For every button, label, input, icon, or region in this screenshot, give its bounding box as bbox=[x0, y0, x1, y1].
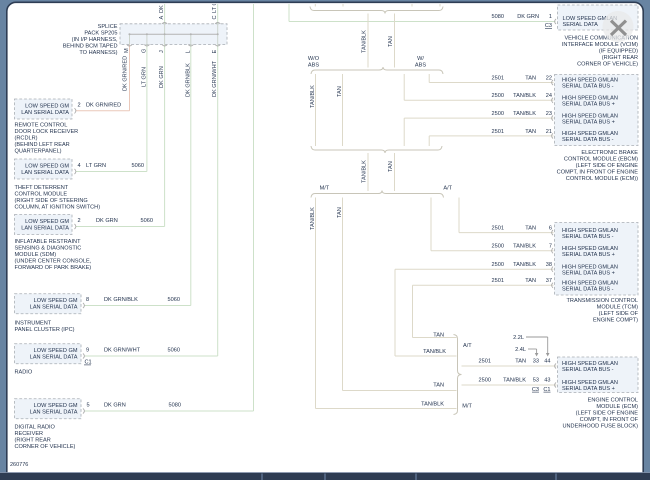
svg-text:2.2L: 2.2L bbox=[513, 335, 524, 341]
svg-text:TAN: TAN bbox=[433, 333, 444, 339]
svg-text:2500: 2500 bbox=[492, 262, 504, 268]
svg-text:260776: 260776 bbox=[10, 462, 28, 468]
svg-text:DK GRN: DK GRN bbox=[96, 218, 118, 224]
svg-text:(LEFT SIDE OF ENGINE: (LEFT SIDE OF ENGINE bbox=[576, 163, 639, 169]
svg-text:SERIAL DATA BUS +: SERIAL DATA BUS + bbox=[562, 119, 615, 125]
svg-text:TAN: TAN bbox=[525, 278, 536, 284]
svg-text:TAN: TAN bbox=[525, 75, 536, 81]
svg-text:CONTROL MODULE: CONTROL MODULE bbox=[15, 192, 68, 198]
svg-text:TAN: TAN bbox=[433, 383, 444, 389]
svg-text:43: 43 bbox=[544, 377, 550, 383]
svg-text:PANEL CLUSTER (IPC): PANEL CLUSTER (IPC) bbox=[15, 327, 75, 333]
svg-text:(RIGHT REAR: (RIGHT REAR bbox=[15, 438, 51, 444]
svg-text:SERIAL DATA BUS +: SERIAL DATA BUS + bbox=[562, 386, 615, 392]
svg-text:LOW SPEED GM: LOW SPEED GM bbox=[25, 219, 69, 225]
svg-text:37: 37 bbox=[546, 278, 552, 284]
svg-text:SERIAL DATA BUS -: SERIAL DATA BUS - bbox=[562, 234, 614, 240]
svg-text:ENGINE COMPT): ENGINE COMPT) bbox=[593, 318, 638, 324]
svg-text:M/T: M/T bbox=[320, 185, 330, 191]
svg-text:C: C bbox=[212, 15, 218, 19]
svg-text:TAN: TAN bbox=[525, 225, 536, 231]
svg-text:TAN/BLK: TAN/BLK bbox=[362, 30, 368, 53]
svg-text:TAN/BLK: TAN/BLK bbox=[513, 111, 536, 117]
svg-text:COMPT, IN FRONT OF ENGINE: COMPT, IN FRONT OF ENGINE bbox=[557, 170, 639, 176]
svg-text:QUARTERPANEL): QUARTERPANEL) bbox=[15, 149, 62, 155]
svg-text:TAN: TAN bbox=[388, 161, 394, 172]
svg-text:TAN/BLK: TAN/BLK bbox=[513, 243, 536, 249]
svg-text:9: 9 bbox=[86, 348, 89, 354]
svg-text:DK GRN/BLK: DK GRN/BLK bbox=[104, 297, 138, 303]
svg-text:5060: 5060 bbox=[168, 297, 180, 303]
svg-text:A: A bbox=[159, 16, 165, 20]
svg-text:LAN SERIAL DATA: LAN SERIAL DATA bbox=[21, 170, 69, 176]
svg-text:REMOTE CONTROL: REMOTE CONTROL bbox=[15, 123, 68, 129]
svg-text:2501: 2501 bbox=[479, 359, 491, 365]
svg-text:DK GRN: DK GRN bbox=[159, 66, 165, 88]
svg-text:W/: W/ bbox=[417, 56, 424, 62]
svg-text:LOW SPEED GM: LOW SPEED GM bbox=[34, 348, 78, 354]
svg-text:A/T: A/T bbox=[463, 343, 472, 349]
svg-text:5060: 5060 bbox=[141, 218, 153, 224]
svg-text:TAN/BLK: TAN/BLK bbox=[513, 93, 536, 99]
svg-text:5060: 5060 bbox=[168, 348, 180, 354]
svg-text:INFLATABLE RESTRAINT: INFLATABLE RESTRAINT bbox=[15, 239, 82, 245]
svg-text:SERIAL DATA: SERIAL DATA bbox=[563, 22, 599, 28]
svg-text:4: 4 bbox=[78, 163, 81, 169]
svg-text:M/T: M/T bbox=[462, 403, 472, 409]
svg-text:SERIAL DATA BUS -: SERIAL DATA BUS - bbox=[562, 367, 614, 373]
svg-text:2.4L: 2.4L bbox=[515, 347, 526, 353]
svg-text:LAN SERIAL DATA: LAN SERIAL DATA bbox=[30, 410, 78, 416]
svg-text:TAN: TAN bbox=[515, 359, 526, 365]
svg-text:LAN SERIAL DATA: LAN SERIAL DATA bbox=[21, 225, 69, 231]
svg-text:1: 1 bbox=[549, 14, 552, 20]
svg-text:DK GRN/RED: DK GRN/RED bbox=[86, 103, 121, 109]
svg-text:CORNER OF VEHICLE): CORNER OF VEHICLE) bbox=[15, 444, 76, 450]
svg-text:FORWARD OF PARK BRAKE): FORWARD OF PARK BRAKE) bbox=[15, 265, 92, 271]
svg-text:33: 33 bbox=[533, 359, 539, 365]
svg-text:2500: 2500 bbox=[479, 377, 491, 383]
svg-text:BEHIND BCM TAPED: BEHIND BCM TAPED bbox=[63, 44, 118, 50]
svg-text:5080: 5080 bbox=[492, 14, 504, 20]
svg-text:TAN: TAN bbox=[337, 86, 343, 97]
svg-text:(RIGHT SIDE OF STEERING: (RIGHT SIDE OF STEERING bbox=[15, 198, 88, 204]
svg-text:CONTROL MODULE (EBCM): CONTROL MODULE (EBCM) bbox=[564, 157, 638, 163]
svg-text:2: 2 bbox=[78, 103, 81, 109]
svg-text:LOW SPEED GM: LOW SPEED GM bbox=[25, 163, 69, 169]
svg-text:ENGINE CONTROL: ENGINE CONTROL bbox=[588, 398, 638, 404]
svg-text:SERIAL DATA BUS +: SERIAL DATA BUS + bbox=[562, 252, 615, 258]
svg-text:G: G bbox=[141, 49, 147, 53]
svg-text:SERIAL DATA BUS -: SERIAL DATA BUS - bbox=[562, 137, 614, 143]
svg-text:ABS: ABS bbox=[415, 63, 426, 69]
svg-text:8: 8 bbox=[86, 297, 89, 303]
svg-text:44: 44 bbox=[544, 359, 550, 365]
svg-text:DK GRN/RED: DK GRN/RED bbox=[123, 56, 129, 91]
svg-text:LOW SPEED GM: LOW SPEED GM bbox=[34, 298, 78, 304]
svg-text:DK GRN/WHT: DK GRN/WHT bbox=[212, 60, 218, 97]
svg-text:TAN/BLK: TAN/BLK bbox=[513, 262, 536, 268]
svg-text:RECEIVER: RECEIVER bbox=[15, 431, 44, 437]
svg-text:SERIAL DATA BUS -: SERIAL DATA BUS - bbox=[562, 84, 614, 90]
svg-text:INSTRUMENT: INSTRUMENT bbox=[15, 321, 52, 327]
svg-text:(IF EQUIPPED): (IF EQUIPPED) bbox=[599, 49, 638, 55]
svg-text:(LEFT SIDE OF ENGINE: (LEFT SIDE OF ENGINE bbox=[576, 411, 639, 417]
svg-text:LT GRN: LT GRN bbox=[141, 67, 147, 87]
svg-text:COLUMN, AT IGNITION SWITCH): COLUMN, AT IGNITION SWITCH) bbox=[15, 205, 101, 211]
svg-text:TAN/BLK: TAN/BLK bbox=[421, 401, 444, 407]
svg-text:5: 5 bbox=[87, 403, 90, 409]
svg-text:W/O: W/O bbox=[308, 56, 320, 62]
svg-text:L: L bbox=[185, 50, 191, 53]
svg-text:2501: 2501 bbox=[492, 225, 504, 231]
svg-text:E: E bbox=[212, 50, 218, 54]
svg-text:53: 53 bbox=[533, 377, 539, 383]
svg-text:DK GRN: DK GRN bbox=[517, 14, 539, 20]
svg-text:(UNDER CENTER CONSOLE,: (UNDER CENTER CONSOLE, bbox=[15, 259, 92, 265]
svg-text:TAN/BLK: TAN/BLK bbox=[362, 160, 368, 183]
svg-text:38: 38 bbox=[546, 262, 552, 268]
svg-text:5080: 5080 bbox=[169, 403, 181, 409]
svg-text:RADIO: RADIO bbox=[15, 370, 33, 376]
svg-text:CONTROL MODULE (ECM)): CONTROL MODULE (ECM)) bbox=[566, 176, 638, 182]
svg-text:ABS: ABS bbox=[308, 63, 319, 69]
svg-text:INTERFACE MODULE (VCIM): INTERFACE MODULE (VCIM) bbox=[562, 42, 638, 48]
svg-text:22: 22 bbox=[546, 75, 552, 81]
svg-text:M: M bbox=[124, 48, 130, 53]
svg-text:21: 21 bbox=[546, 129, 552, 135]
svg-text:2500: 2500 bbox=[492, 111, 504, 117]
svg-text:2501: 2501 bbox=[492, 129, 504, 135]
svg-text:DK GRN/WHT: DK GRN/WHT bbox=[104, 348, 141, 354]
svg-text:SPLICE: SPLICE bbox=[98, 24, 118, 30]
svg-text:CORNER OF VEHICLE): CORNER OF VEHICLE) bbox=[577, 62, 638, 68]
svg-text:PACK SP205: PACK SP205 bbox=[84, 31, 117, 37]
svg-text:(IN I/P HARNESS,: (IN I/P HARNESS, bbox=[72, 37, 118, 43]
svg-text:24: 24 bbox=[546, 93, 552, 99]
svg-text:LOW SPEED GM: LOW SPEED GM bbox=[25, 103, 69, 109]
svg-text:DK GRN/BLK: DK GRN/BLK bbox=[185, 63, 191, 97]
svg-text:THEFT DETERRENT: THEFT DETERRENT bbox=[15, 185, 69, 191]
svg-text:SERIAL DATA BUS +: SERIAL DATA BUS + bbox=[562, 270, 615, 276]
svg-text:(BEHIND LEFT REAR: (BEHIND LEFT REAR bbox=[15, 142, 70, 148]
svg-text:TRANSMISSION CONTROL: TRANSMISSION CONTROL bbox=[567, 298, 638, 304]
svg-text:TAN/BLK: TAN/BLK bbox=[310, 85, 316, 108]
svg-text:(RCDLR): (RCDLR) bbox=[15, 136, 38, 142]
svg-text:SERIAL DATA BUS +: SERIAL DATA BUS + bbox=[562, 102, 615, 108]
svg-text:SENSING & DIAGNOSTIC: SENSING & DIAGNOSTIC bbox=[15, 246, 82, 252]
svg-text:ELECTRONIC BRAKE: ELECTRONIC BRAKE bbox=[581, 150, 638, 156]
svg-text:TAN/BLK: TAN/BLK bbox=[310, 207, 316, 230]
svg-text:DK GRN: DK GRN bbox=[104, 403, 126, 409]
svg-text:A/T: A/T bbox=[443, 185, 452, 191]
svg-text:LT GRN: LT GRN bbox=[86, 163, 106, 169]
svg-text:MODULE (SDM): MODULE (SDM) bbox=[15, 252, 57, 258]
svg-text:J: J bbox=[159, 50, 165, 53]
svg-text:LAN SERIAL DATA: LAN SERIAL DATA bbox=[30, 305, 78, 311]
svg-text:2501: 2501 bbox=[492, 278, 504, 284]
svg-text:MODULE (ECM): MODULE (ECM) bbox=[596, 404, 638, 410]
svg-text:2500: 2500 bbox=[492, 243, 504, 249]
svg-text:LAN SERIAL DATA: LAN SERIAL DATA bbox=[21, 110, 69, 116]
svg-text:(RIGHT REAR: (RIGHT REAR bbox=[602, 55, 638, 61]
svg-text:TO HARNESS): TO HARNESS) bbox=[79, 50, 117, 56]
svg-text:TAN/BLK: TAN/BLK bbox=[503, 377, 526, 383]
svg-text:2: 2 bbox=[78, 218, 81, 224]
svg-text:7: 7 bbox=[549, 243, 552, 249]
svg-text:(LEFT SIDE OF: (LEFT SIDE OF bbox=[599, 311, 639, 317]
svg-text:DOOR LOCK RECEIVER: DOOR LOCK RECEIVER bbox=[15, 129, 79, 135]
svg-text:23: 23 bbox=[546, 111, 552, 117]
svg-text:TAN: TAN bbox=[337, 207, 343, 218]
svg-text:LOW SPEED GM: LOW SPEED GM bbox=[34, 403, 78, 409]
svg-text:COMPT, IN FRONT OF: COMPT, IN FRONT OF bbox=[580, 417, 639, 423]
svg-text:TAN: TAN bbox=[388, 36, 394, 47]
svg-text:SERIAL DATA BUS -: SERIAL DATA BUS - bbox=[562, 287, 614, 293]
svg-text:MODULE (TCM): MODULE (TCM) bbox=[597, 305, 638, 311]
svg-text:DIGITAL RADIO: DIGITAL RADIO bbox=[15, 425, 56, 431]
svg-text:2501: 2501 bbox=[492, 75, 504, 81]
svg-text:5060: 5060 bbox=[132, 163, 144, 169]
svg-text:LAN SERIAL DATA: LAN SERIAL DATA bbox=[30, 355, 78, 361]
svg-text:6: 6 bbox=[549, 225, 552, 231]
svg-text:2500: 2500 bbox=[492, 93, 504, 99]
svg-text:TAN/BLK: TAN/BLK bbox=[423, 349, 446, 355]
svg-text:UNDERHOOD FUSE BLOCK): UNDERHOOD FUSE BLOCK) bbox=[562, 424, 638, 430]
svg-text:TAN: TAN bbox=[525, 129, 536, 135]
